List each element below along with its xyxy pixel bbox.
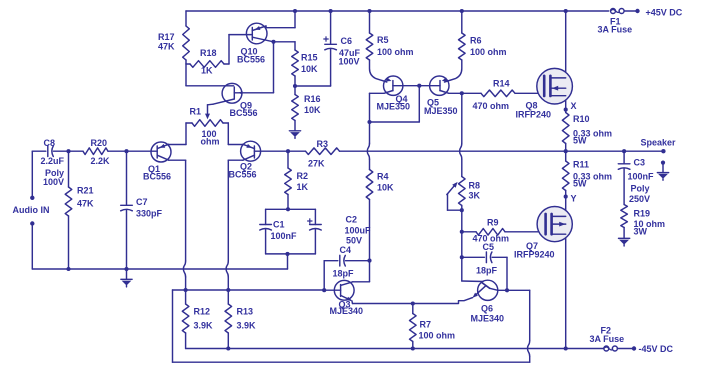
- ground on rail: [121, 269, 132, 287]
- wire Q1 base: [127, 150, 158, 152]
- node Audio IN label: [13, 205, 50, 215]
- node R15-R16 junction: [293, 84, 297, 88]
- svg-text:BC556: BC556: [143, 172, 171, 182]
- resistor R7: [410, 301, 456, 350]
- svg-text:3.9K: 3.9K: [237, 321, 257, 331]
- svg-text:X: X: [571, 101, 577, 111]
- resistor R19: [621, 205, 665, 239]
- svg-text:100nF: 100nF: [628, 172, 655, 182]
- node output junction: [564, 149, 568, 153]
- wire Q9 collector arrow to R1: [205, 104, 213, 119]
- svg-text:C4: C4: [340, 245, 352, 255]
- svg-text:+45V DC: +45V DC: [646, 8, 683, 18]
- wire Q6 collector: [498, 288, 530, 292]
- svg-text:R14: R14: [493, 79, 510, 89]
- wire Q5 collector to node: [449, 92, 462, 94]
- transistor Q9: [213, 83, 258, 118]
- svg-text:R12: R12: [194, 307, 211, 317]
- svg-text:100 ohm: 100 ohm: [419, 331, 456, 341]
- svg-text:-45V DC: -45V DC: [639, 344, 674, 354]
- wire box stem to ground rail: [287, 254, 289, 269]
- node input terminal top: [30, 196, 34, 200]
- svg-text:R17: R17: [158, 32, 175, 42]
- svg-text:C1: C1: [273, 220, 285, 230]
- resistor R3: [288, 139, 340, 169]
- svg-text:10K: 10K: [377, 183, 394, 193]
- resistor R21: [65, 149, 94, 269]
- resistor R4: [366, 170, 394, 261]
- svg-text:100V: 100V: [43, 177, 64, 187]
- wire Q2 base to node: [254, 150, 288, 152]
- svg-text:R21: R21: [77, 186, 94, 196]
- wire Q6 emitter: [353, 298, 473, 304]
- node Q10 collector junction: [271, 40, 275, 44]
- svg-text:IRFP9240: IRFP9240: [514, 250, 555, 260]
- svg-text:R6: R6: [470, 36, 482, 46]
- svg-text:Audio IN: Audio IN: [13, 205, 50, 215]
- resistor R16: [292, 86, 321, 131]
- wire R12 R13 top rail: [173, 288, 325, 292]
- svg-text:Y: Y: [571, 194, 577, 204]
- node C5 junction: [460, 255, 464, 259]
- wire +45V top rail: [186, 10, 609, 12]
- resistor R13: [225, 290, 256, 351]
- wire R6 to Q5 emitter: [445, 60, 462, 82]
- fuse F1: [611, 9, 640, 14]
- svg-text:47K: 47K: [77, 199, 94, 209]
- resistor R5: [366, 9, 413, 60]
- node -45V label: [590, 326, 674, 355]
- svg-text:BC556: BC556: [230, 108, 258, 118]
- wire input top: [31, 151, 33, 196]
- svg-text:IRFP240: IRFP240: [516, 110, 552, 120]
- svg-text:C2: C2: [346, 215, 358, 225]
- svg-text:R5: R5: [377, 35, 389, 45]
- wire Q5 collector down to R8: [460, 93, 462, 176]
- resistor R15: [292, 50, 318, 86]
- transistor Q10: [237, 23, 274, 64]
- node R4 C4 junction: [367, 259, 371, 263]
- capacitor C3: [618, 151, 654, 204]
- svg-text:5W: 5W: [573, 179, 587, 189]
- wire Q10 collector to R15: [274, 42, 296, 50]
- svg-text:R19: R19: [634, 209, 651, 219]
- wire left frame: [173, 290, 530, 362]
- wire R1 right to Q2 emitter: [228, 123, 243, 145]
- svg-text:1K: 1K: [297, 182, 309, 192]
- svg-text:MJE350: MJE350: [377, 102, 411, 112]
- node R9 junction: [460, 230, 464, 234]
- resistor R12: [182, 290, 213, 349]
- svg-text:27K: 27K: [308, 159, 325, 169]
- svg-text:C3: C3: [634, 158, 646, 168]
- node Y: [564, 194, 577, 204]
- svg-text:18pF: 18pF: [333, 269, 355, 279]
- fuse F2: [604, 346, 636, 351]
- transistor Q2: [229, 141, 261, 179]
- svg-text:100 ohm: 100 ohm: [377, 47, 414, 57]
- svg-text:3A Fuse: 3A Fuse: [590, 334, 625, 344]
- svg-text:BC556: BC556: [229, 170, 257, 180]
- svg-text:MJE350: MJE350: [424, 106, 458, 116]
- wire R8 to R9 node: [461, 210, 463, 232]
- wire Q1 collector down: [169, 160, 186, 290]
- resistor R6: [459, 9, 507, 60]
- wire Q3 collector up: [353, 261, 370, 282]
- wire Q10 emitter to rail: [266, 9, 297, 28]
- capacitor C7: [121, 151, 163, 269]
- svg-text:2.2uF: 2.2uF: [41, 156, 65, 166]
- svg-text:Poly: Poly: [631, 184, 650, 194]
- svg-text:R13: R13: [237, 307, 254, 317]
- wire ground rail: [32, 267, 287, 271]
- svg-text:Q6: Q6: [481, 304, 493, 314]
- svg-text:1K: 1K: [201, 66, 213, 76]
- svg-text:R20: R20: [91, 138, 108, 148]
- svg-text:10K: 10K: [304, 105, 321, 115]
- wire C1 C2 box top: [266, 208, 316, 210]
- node speaker wire: [566, 138, 676, 154]
- wire R5 to Q4 emitter: [370, 60, 387, 82]
- wire Q3 emitter: [351, 301, 354, 304]
- svg-text:100V: 100V: [339, 57, 360, 67]
- wire feedback line to output: [340, 150, 566, 152]
- svg-text:50V: 50V: [346, 236, 362, 246]
- svg-text:MJE340: MJE340: [330, 306, 364, 316]
- wire R1 left to Q1 emitter: [169, 123, 187, 145]
- resistor R2: [285, 149, 309, 211]
- svg-text:R1: R1: [190, 107, 202, 117]
- capacitor C5: [462, 242, 507, 290]
- node speaker return terminal: [661, 161, 665, 165]
- svg-text:MJE340: MJE340: [471, 314, 505, 324]
- svg-text:R4: R4: [377, 172, 389, 182]
- capacitor C2: [308, 209, 371, 254]
- ground at speaker: [657, 164, 668, 180]
- wire Q9 base from R18: [186, 64, 234, 86]
- resistor R14: [462, 79, 544, 112]
- wire R4 branch vertical: [367, 122, 369, 170]
- node Q5 collector junction: [460, 91, 464, 95]
- svg-text:C8: C8: [44, 138, 56, 148]
- svg-text:R7: R7: [420, 320, 432, 330]
- resistor R11: [562, 151, 612, 196]
- svg-text:470 ohm: 470 ohm: [473, 101, 510, 111]
- svg-text:BC556: BC556: [237, 55, 265, 65]
- wire Q10 base: [229, 35, 252, 64]
- svg-text:3A Fuse: 3A Fuse: [598, 25, 633, 35]
- potentiometer R8: [447, 177, 481, 213]
- node input terminal bottom: [30, 221, 34, 225]
- resistor R18: [186, 48, 229, 76]
- wire Q9 emitter up: [242, 42, 274, 93]
- svg-text:5W: 5W: [573, 136, 587, 146]
- svg-text:100uF: 100uF: [345, 226, 372, 236]
- resistor R20: [83, 138, 127, 166]
- transistor Q6: [471, 280, 505, 323]
- mosfet Q7: [514, 197, 572, 349]
- mosfet Q8: [516, 68, 573, 119]
- wire C1 C2 box bottom: [266, 252, 316, 256]
- svg-text:2.2K: 2.2K: [91, 156, 111, 166]
- svg-text:C6: C6: [341, 36, 353, 46]
- svg-text:3K: 3K: [469, 191, 481, 201]
- svg-text:3W: 3W: [634, 227, 648, 237]
- node +45V label: [598, 8, 683, 35]
- svg-text:C7: C7: [136, 197, 148, 207]
- node Q1 base junction: [124, 149, 128, 153]
- resistor R17: [158, 11, 189, 64]
- resistor R9: [462, 218, 546, 244]
- svg-text:3.9K: 3.9K: [194, 321, 214, 331]
- svg-text:R8: R8: [469, 181, 481, 191]
- transistor Q4: [377, 76, 411, 112]
- svg-text:R15: R15: [301, 53, 318, 63]
- svg-text:100nF: 100nF: [271, 231, 298, 241]
- svg-text:10K: 10K: [301, 64, 318, 74]
- svg-text:330pF: 330pF: [136, 209, 163, 219]
- wire input bottom to ground rail: [31, 226, 33, 270]
- svg-text:R10: R10: [573, 114, 590, 124]
- transistor Q3: [330, 280, 364, 316]
- wire Q6 collector down loop: [528, 290, 530, 362]
- wire base branch down: [461, 232, 463, 257]
- transistor Q1: [143, 142, 171, 182]
- svg-text:ohm: ohm: [201, 137, 220, 147]
- wire Q6 base: [462, 257, 483, 281]
- svg-text:18pF: 18pF: [476, 266, 498, 276]
- svg-text:R16: R16: [304, 94, 321, 104]
- wire main vertical drain Q8: [564, 9, 568, 110]
- svg-text:47K: 47K: [158, 42, 175, 52]
- ground below R16: [289, 131, 300, 139]
- svg-text:Speaker: Speaker: [641, 138, 677, 148]
- capacitor C1: [260, 209, 297, 254]
- resistor R10: [562, 110, 612, 152]
- wire Q3 base: [322, 288, 340, 292]
- svg-text:R9: R9: [487, 218, 499, 228]
- svg-text:R18: R18: [200, 48, 217, 58]
- capacitor C6: [295, 9, 361, 86]
- svg-text:250V: 250V: [629, 194, 650, 204]
- capacitor C4: [324, 245, 369, 290]
- svg-text:R3: R3: [317, 139, 329, 149]
- transistor Q5: [424, 76, 458, 116]
- wire Q2 collector down: [226, 160, 243, 290]
- wire mirror loop: [370, 86, 420, 122]
- node Q4 collector junction: [367, 120, 371, 124]
- svg-text:100 ohm: 100 ohm: [470, 47, 507, 57]
- wire Q4 Q5 bases: [393, 84, 440, 88]
- svg-text:R2: R2: [297, 171, 309, 181]
- wire -45V rail: [186, 346, 603, 350]
- capacitor C8: [32, 138, 83, 187]
- wire Q4 collector down: [370, 93, 385, 122]
- svg-text:C5: C5: [483, 242, 495, 252]
- node X: [564, 101, 577, 112]
- resistor R1: [186, 107, 228, 147]
- svg-text:R11: R11: [573, 160, 589, 170]
- ground below R19: [619, 238, 630, 246]
